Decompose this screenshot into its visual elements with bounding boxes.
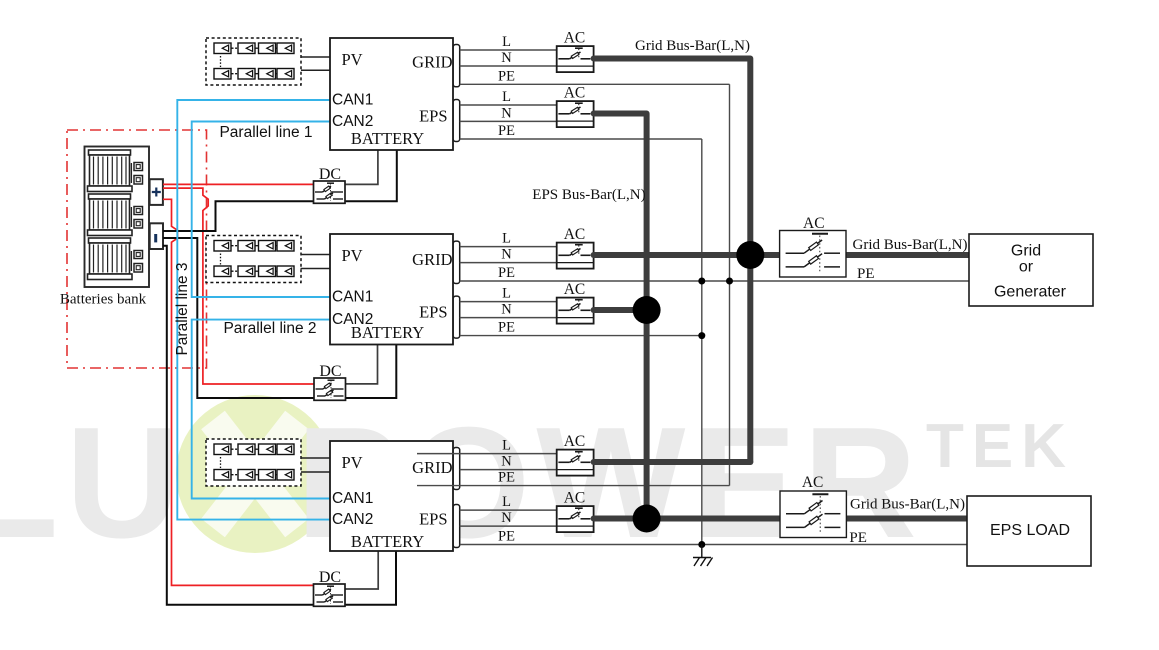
svg-text:N: N [501,50,512,66]
svg-text:CAN1: CAN1 [332,92,373,109]
watermark background [0,395,1074,571]
battery module 1 [88,150,143,192]
thick wire AC5 out joining grid bus bottom [594,459,751,465]
svg-text:N: N [501,302,512,318]
wire U3 GRID L [417,453,557,455]
svg-text:EPS: EPS [419,510,447,529]
wire PV array3 to inverter3 [301,458,330,472]
svg-text:DC: DC [319,363,341,380]
svg-text:GRID: GRID [412,250,452,269]
junction dot grid bus [736,241,764,269]
wire U3 EPS L [460,509,557,511]
junction dot U2 EPS PE [698,332,705,339]
AC breaker 1 (U1 grid) [557,46,594,72]
inverter U3 GRID connector bump [453,448,460,490]
svg-text:or: or [1019,259,1034,276]
inverter U2 EPS connector bump [453,296,460,338]
wire U1 EPS N [460,120,557,122]
svg-text:PE: PE [498,123,515,139]
svg-text:Grid Bus-Bar(L,N): Grid Bus-Bar(L,N) [853,237,968,253]
svg-text:Parallel line 3: Parallel line 3 [174,262,191,355]
svg-text:PE: PE [498,320,515,336]
wire U2 EPS L [460,301,557,303]
wire U3 GRID PE [417,485,730,487]
wire DC2 output to inverter2 battery [346,345,378,384]
svg-text:Parallel line 2: Parallel line 2 [223,320,316,337]
svg-text:Grid Bus-Bar(L,N): Grid Bus-Bar(L,N) [635,38,750,54]
watermark logo circle [176,395,334,553]
junction dot EPS bus upper [633,296,661,324]
svg-text:N: N [501,247,512,263]
wire U3 GRID N [460,469,557,471]
thick wire AC4 out to EPS bus [594,307,647,313]
black negative wire B1 (- to DC1 to inverter1 battery) [163,150,397,231]
red positive wire R1 (+ to DC1) [163,183,314,185]
svg-text:GRID: GRID [412,53,452,72]
svg-text:GRID: GRID [412,458,452,477]
svg-text:PE: PE [849,530,867,546]
wire U2 EPS PE [460,335,702,337]
thick wire AC6 out to EPS bus and breaker [594,516,780,522]
Grid or Generater box [969,234,1093,306]
wire U3 EPS PE (to EPS LOAD box) [460,544,967,546]
PV array 1 [206,38,301,85]
Grid bus-bar thick (AC1 out, top run and vertical) [594,59,751,463]
PV array 3 [206,439,301,486]
svg-text:DC: DC [319,166,341,183]
terminal + [150,179,163,205]
AC breaker 2 (U1 eps) [557,101,594,127]
svg-text:LU: LU [0,395,187,571]
svg-text:Batteries bank: Batteries bank [60,292,147,308]
svg-text:AC: AC [803,215,825,232]
junction dot PE grid x grid PE row [726,278,733,285]
battery module 3 [88,238,143,280]
AC breaker 6 (U3 eps) [557,506,594,532]
svg-text:Grid Bus-Bar(L,N): Grid Bus-Bar(L,N) [850,497,965,513]
svg-text:AC: AC [802,474,824,491]
svg-text:L: L [502,438,511,454]
red positive wire R3 (+ to DC3) [163,199,314,585]
svg-text:PE: PE [498,68,515,84]
svg-text:PE: PE [857,266,875,282]
inverter U2 [330,234,453,345]
junction dot ground tap [698,541,705,548]
wire DC3 output to inverter3 battery [344,551,378,589]
thick wire AC3 out to grid bus and breaker [594,252,780,258]
svg-text:EPS Bus-Bar(L,N): EPS Bus-Bar(L,N) [532,187,645,203]
inverter U1 GRID connector bump [453,45,460,87]
inverter U3 [330,441,453,551]
svg-text:L: L [502,89,511,105]
2-pole AC breaker P1 (grid) [780,231,846,278]
DC breaker 2 [314,378,346,400]
red positive wire R2 (+ to DC2) [163,188,314,384]
svg-text:AC: AC [564,85,586,102]
DC breaker 3 [314,584,346,606]
CAN parallel line 2 wire (inv2 CAN2 to inv3 CAN1) [192,320,330,499]
wire U2 GRID L [460,246,557,248]
svg-text:BATTERY: BATTERY [351,323,424,342]
terminal - [150,223,163,249]
battery module 2 [88,194,143,236]
AC breaker 4 (U2 eps) [557,298,594,324]
AC breaker 5 (U3 grid) [557,450,594,476]
junction dot EPS bus lower [633,505,661,533]
svg-text:CAN2: CAN2 [332,113,373,130]
svg-text:AC: AC [564,490,586,507]
EPS LOAD box [967,496,1091,566]
svg-text:CAN1: CAN1 [332,289,373,306]
svg-text:N: N [501,510,512,526]
DC breaker 1 [314,181,346,203]
wire PV array1 to inverter1 [301,57,330,70]
svg-text:EPS: EPS [419,107,447,126]
svg-text:Grid: Grid [1011,243,1041,260]
PV array 2 [206,236,301,283]
wire U1 EPS PE [460,138,702,140]
wire U1 GRID PE [460,83,730,85]
svg-text:PE: PE [498,529,515,545]
thick wire breaker P2 to EPS LOAD box [846,516,967,522]
svg-text:CAN2: CAN2 [332,511,373,528]
svg-text:L: L [502,34,511,50]
svg-text:PV: PV [342,453,363,472]
wire U3 EPS N [460,525,557,527]
thick wire breaker P1 to Grid box [846,252,969,258]
svg-text:BATTERY: BATTERY [351,129,424,148]
svg-text:L: L [502,231,511,247]
wire U2 GRID PE (to Grid box) [460,280,969,282]
svg-text:AC: AC [564,226,586,243]
inverter U2 GRID connector bump [453,241,460,283]
ground symbol [693,545,713,567]
wire U1 GRID L [460,49,557,51]
wire U1 GRID N [460,65,557,67]
svg-text:Parallel line 1: Parallel line 1 [219,124,312,141]
svg-text:PE: PE [498,470,515,486]
svg-text:N: N [501,105,512,121]
inverter U3 EPS connector bump [453,505,460,548]
svg-text:N: N [501,454,512,470]
svg-text:AC: AC [564,30,586,47]
wire U2 GRID N [460,262,557,264]
CAN parallel line 3 wire (inv1 CAN1 to inv3 CAN2) [177,100,330,520]
black negative wire B3 (- to DC3 to inverter3 battery) [163,246,396,605]
svg-text:AC: AC [564,433,586,450]
PE bus vertical (EPS side) [701,139,703,545]
wire DC1 output to inverter1 battery [345,150,378,184]
battery safety boundary (red dash-dot) [67,130,207,368]
svg-text:PV: PV [342,50,363,69]
svg-text:EPS: EPS [419,303,447,322]
inverter U1 EPS connector bump [453,100,460,142]
svg-text:L: L [502,494,511,510]
junction dot PE eps x grid PE row [698,278,705,285]
svg-text:AC: AC [564,281,586,298]
AC breaker 3 (U2 grid) [557,243,594,269]
svg-text:PE: PE [498,265,515,281]
EPS bus-bar thick (AC2 out, run and vertical) [594,114,647,519]
svg-text:Generater: Generater [994,284,1067,301]
inverter U1 [330,38,453,150]
svg-text:L: L [502,286,511,302]
2-pole AC breaker P2 (EPS load) [780,491,846,538]
svg-text:CAN1: CAN1 [332,490,373,507]
svg-text:EPS LOAD: EPS LOAD [990,522,1070,539]
batteries bank outer box [85,147,150,288]
CAN parallel line 1 wire (inv1 CAN2 to inv2 CAN1) [192,122,330,298]
wire U2 EPS N [460,317,557,319]
PE bus vertical (grid side) [729,84,731,485]
svg-text:DC: DC [319,569,341,586]
wire PV array2 to inverter2 [301,255,331,269]
black negative wire B2 (- to DC2 to inverter2 battery) [163,238,396,398]
svg-text:PV: PV [342,246,363,265]
svg-text:TEK: TEK [926,412,1074,481]
svg-text:BATTERY: BATTERY [351,532,424,551]
wire U1 EPS L [460,104,557,106]
